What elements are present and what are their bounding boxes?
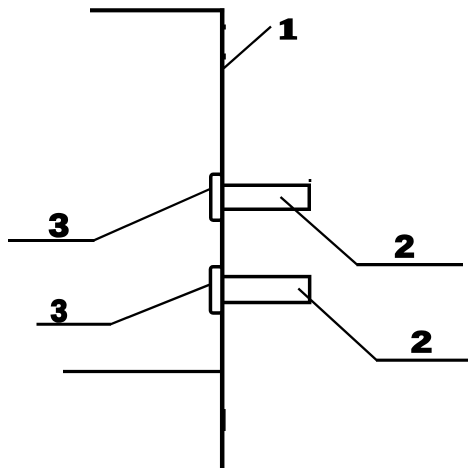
wall: lower horizontal edge	[63, 370, 224, 373]
svg-text:2: 2	[411, 327, 432, 359]
wall: vertical line (part 1)	[220, 8, 225, 468]
flange 3 (bottom)	[210, 267, 222, 313]
bolt shaft 2 (bottom)	[223, 277, 310, 303]
speck on wall near top	[223, 25, 225, 30]
leader line for label 3 (top): diagonal	[94, 189, 210, 240]
leader line for label 1	[224, 27, 272, 69]
leader line for label 3 (bottom): underline	[37, 323, 112, 326]
svg-text:3: 3	[49, 207, 69, 243]
leader line for label 2 (bottom): diagonal	[298, 289, 377, 361]
speck on wall mid	[223, 54, 226, 60]
leader line for label 2 (top): underline	[357, 263, 464, 266]
svg-text:2: 2	[395, 228, 415, 264]
svg-text:3: 3	[51, 294, 68, 329]
flange 3 (top)	[211, 174, 222, 220]
leader line for label 3 (bottom): diagonal	[111, 285, 211, 325]
speck at shaft top-right	[309, 179, 312, 182]
leader line for label 2 (top): diagonal	[281, 197, 358, 265]
wall: top horizontal edge	[90, 8, 224, 12]
leader line for label 2 (bottom): underline	[376, 359, 468, 362]
bolt shaft 2 (top)	[223, 185, 310, 209]
roughness on wall edge lower	[224, 409, 225, 431]
svg-text:1: 1	[278, 14, 298, 46]
leader line for label 3 (top): underline	[8, 239, 95, 242]
